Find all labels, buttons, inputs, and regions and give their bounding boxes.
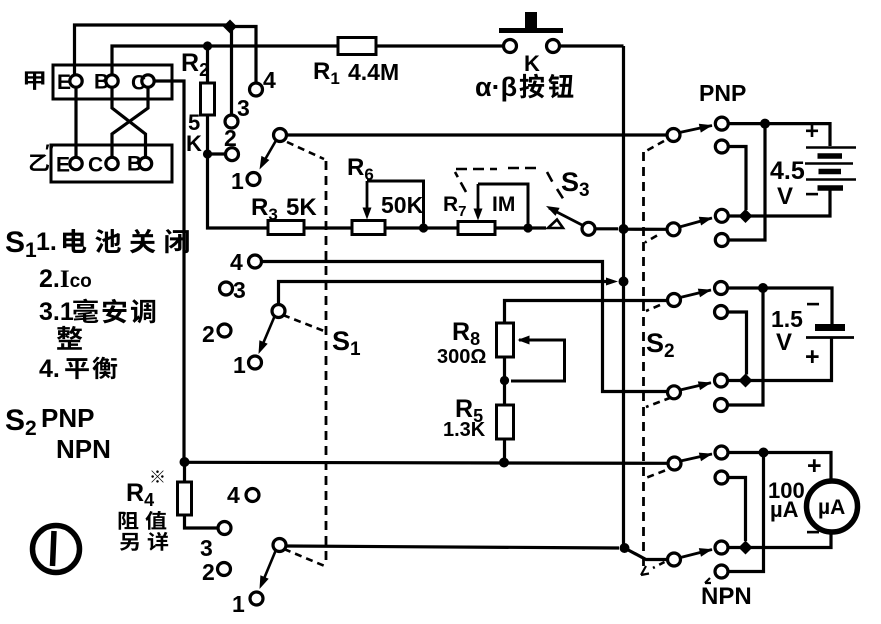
S2 ganged shaft dashed line <box>642 152 645 569</box>
svg-text:1: 1 <box>232 591 245 617</box>
S2 ganging dashes bottom upper <box>647 471 665 478</box>
wire upper inner contact down to minus wire <box>728 147 746 211</box>
svg-text:5K: 5K <box>286 194 317 221</box>
svg-text:V: V <box>777 183 793 210</box>
svg-text:α·β: α·β <box>475 72 517 102</box>
S1 ganging dashes deck C <box>284 549 327 567</box>
S2 PNP lower NO contact <box>715 209 728 222</box>
S1 deck B contact 3 <box>220 282 233 295</box>
S2 PNP lower blade arrow <box>680 218 713 227</box>
node junction R5 bottom on rail <box>499 458 509 468</box>
svg-text:2: 2 <box>202 559 215 585</box>
wire NO contact to meter + corner <box>728 453 831 482</box>
svg-text:4.4M: 4.4M <box>348 59 399 85</box>
wire middle NO to battery − corner <box>728 288 833 324</box>
label 甲 <box>25 71 45 90</box>
S1 deck C contact 3 <box>218 522 231 535</box>
label 乙″ <box>30 154 49 171</box>
svg-text:4: 4 <box>263 67 276 93</box>
svg-text:B: B <box>127 153 142 176</box>
wire R1 to K button <box>376 44 504 47</box>
S2 PNP upper NO contact <box>715 117 728 130</box>
wire upper inner down to − wire <box>728 478 746 542</box>
wire R6 to R7 <box>385 226 458 229</box>
legend line 整 <box>57 326 82 350</box>
svg-text:50K: 50K <box>381 192 424 218</box>
wire R7 to S3 contact <box>495 226 546 229</box>
svg-text:3: 3 <box>237 95 250 121</box>
meter µA 100µA <box>807 481 858 532</box>
resistor R5 1.3K (vertical) <box>497 405 514 439</box>
svg-text:PNP: PNP <box>41 403 94 433</box>
S2 middle upper pole <box>668 294 681 307</box>
wire PNP NO contact to battery + corner <box>728 124 830 146</box>
wire node down to contact 3 of S1 deck A <box>230 27 233 116</box>
svg-text:3: 3 <box>233 277 246 303</box>
svg-text:−: − <box>806 291 820 318</box>
wire upper inner down to + wire <box>728 312 747 375</box>
potentiometer R7 1M <box>458 222 495 235</box>
S2 bottom lower blade arrow <box>681 550 713 558</box>
S2 middle lower blade arrow <box>680 383 711 390</box>
wire cross-connect to lower inner contact <box>728 453 764 572</box>
socket box 甲 (top transistor socket) <box>53 65 172 99</box>
S3 pivot contact <box>582 222 595 235</box>
node R2 top junction <box>203 41 212 50</box>
S2 bottom lower inner contact <box>715 565 728 578</box>
svg-text:+: + <box>807 452 822 480</box>
wire junction to S2 NPN lower pole <box>625 548 668 560</box>
S1 deck A blade arrow to contact 1 <box>263 141 276 164</box>
socket 乙 terminal C <box>106 157 118 169</box>
S2 ganging dashes top deck <box>646 141 664 151</box>
label 阻值 <box>119 512 139 530</box>
socket 甲 terminal E <box>70 75 82 87</box>
svg-text:1.: 1. <box>36 228 57 256</box>
label 另详 <box>120 533 139 551</box>
S1 deck C pole wire to bus bottom junction <box>286 546 619 548</box>
S2 bottom lower pole <box>668 553 681 566</box>
S2 middle lower NO contact <box>715 374 728 387</box>
R8 wiper arrow loop <box>518 336 530 345</box>
S2 middle upper NO contact <box>715 282 728 295</box>
rail wire bottom (R4 top to µA deck pole) <box>185 462 669 463</box>
node junction plus wire (diamond) <box>739 374 753 388</box>
svg-text:µA: µA <box>770 497 799 522</box>
S1 deck A contact 1 <box>247 173 260 186</box>
wire battery + to lower row <box>728 338 832 381</box>
pushbutton K actuator <box>499 28 563 33</box>
node junction bus S3 wire <box>619 224 629 234</box>
pushbutton K left contact <box>504 40 517 53</box>
svg-text:4.: 4. <box>39 355 60 383</box>
node R2 bottom junction <box>203 149 212 158</box>
potentiometer R6 50K <box>352 221 385 235</box>
wire C甲 cross to C乙 <box>112 88 148 158</box>
svg-text:1.3K: 1.3K <box>443 419 486 441</box>
S2 PNP upper inner contact <box>715 140 728 153</box>
svg-text:K: K <box>186 131 202 156</box>
S2 middle upper inner contact <box>715 306 728 319</box>
S3 blade with arrow <box>549 208 584 226</box>
S1 deck A contact 2 <box>226 148 239 161</box>
svg-text:PNP: PNP <box>699 80 746 106</box>
node junction R7 wiper to track <box>523 223 532 232</box>
S3 fixed contact (triangle) <box>548 220 563 229</box>
S2 ganging dashes middle lower <box>646 398 671 408</box>
S1 deck C contact 2 <box>218 563 231 576</box>
vertical bus wire from K down to bottom deck <box>622 46 625 546</box>
potentiometer R8 300Ω (vertical) <box>497 323 514 357</box>
S2 PNP lower pole <box>667 223 680 236</box>
wire meter − to lower row <box>728 531 831 548</box>
svg-text:NPN: NPN <box>56 434 111 464</box>
S2 ganging dashes PNP lower <box>645 236 657 243</box>
resistor R4 (vertical) <box>183 462 186 482</box>
resistor R2 5K (vertical) <box>206 46 209 83</box>
S1 deck A pole wire to S2 PNP pole <box>287 133 668 136</box>
svg-text:1: 1 <box>233 352 246 378</box>
socket 乙 terminal B <box>139 157 151 169</box>
wire B甲 up to R1 rail <box>112 46 338 75</box>
svg-text:−: − <box>806 519 820 546</box>
S3 dashed linkage outline <box>455 168 564 200</box>
S1 deck B blade arrow to contact 1 <box>262 317 275 347</box>
wire S3 to bus <box>595 227 618 230</box>
svg-text:4: 4 <box>227 482 240 508</box>
wire cross-connect + to lower inner contact <box>728 124 765 240</box>
pushbutton K right contact <box>547 40 560 53</box>
S2 middle lower pole <box>668 386 681 399</box>
node junction R4 top on rail <box>180 457 190 467</box>
S2 bottom upper inner contact <box>715 471 728 484</box>
S2 bottom upper NO contact <box>715 446 728 459</box>
S2 middle upper blade arrow <box>680 290 711 298</box>
S1 deck C blade arrow to contact 1 <box>263 551 276 581</box>
battery 4.5V cells <box>806 146 856 149</box>
svg-text:C: C <box>131 72 146 95</box>
resistor R1 4.4M (horizontal) <box>338 38 376 55</box>
S1 deck B pole <box>272 305 285 318</box>
S1 ganging dashes deck A <box>287 142 324 159</box>
svg-text:+: + <box>805 343 820 371</box>
socket box 乙 (bottom transistor socket) <box>51 145 172 182</box>
node junction battery + branch <box>760 119 770 129</box>
wire node to contact 4 of S1 deck A <box>230 27 256 84</box>
svg-text:4.5: 4.5 <box>770 157 805 185</box>
figure number ① mark <box>33 526 80 573</box>
wire top rail from E甲 up and right to node <box>75 25 231 75</box>
svg-text:2: 2 <box>224 125 237 151</box>
svg-text:E: E <box>56 154 70 177</box>
S2 bottom lower NO contact <box>715 541 728 554</box>
socket 甲 terminal B <box>106 75 118 87</box>
arrow into bus junction <box>606 278 618 286</box>
S1 ganging dashes deck B <box>283 315 324 331</box>
svg-text:µA: µA <box>818 496 845 519</box>
svg-text:300Ω: 300Ω <box>437 346 486 368</box>
svg-text:1: 1 <box>231 168 244 194</box>
wire cross-connect to lower inner contact <box>728 288 764 405</box>
svg-text:4: 4 <box>230 249 243 275</box>
svg-text:E: E <box>57 71 71 94</box>
wire R2 bottom down to R3 <box>208 154 269 228</box>
S2 bottom upper blade arrow <box>681 454 713 461</box>
S1 deck A contact 3 <box>225 115 238 128</box>
socket 甲 terminal C <box>142 75 154 87</box>
wire E甲 to E乙 <box>74 88 77 158</box>
S1 deck B wire contact4 right and down to S2 middle lower pole <box>262 262 668 392</box>
svg-text:IM: IM <box>492 193 515 216</box>
S1 deck C contact 1 <box>250 592 263 605</box>
svg-text:+: + <box>805 118 819 145</box>
socket 乙 terminal E <box>70 157 82 169</box>
S1 deck B pole wire up and right to bus junction <box>279 282 611 305</box>
wire B甲 cross to B乙 <box>112 88 146 158</box>
S2 middle lower inner contact <box>715 399 728 412</box>
svg-text:2: 2 <box>202 321 215 347</box>
S1 deck B contact 2 <box>218 324 231 337</box>
S2 ganging dashes middle upper <box>646 305 660 311</box>
node junction meter + branch <box>759 448 769 458</box>
battery 1.5V cell <box>815 324 845 331</box>
S1 deck A pole <box>274 129 287 142</box>
wire R8 top up and right to S2 middle upper pole <box>505 301 668 324</box>
svg-text:−: − <box>805 181 819 208</box>
svg-text:NPN: NPN <box>701 583 752 610</box>
node junction R6 wiper to track <box>419 223 428 232</box>
wire K to long vertical bus <box>560 44 624 47</box>
resistor R3 5K (horizontal) <box>268 221 304 235</box>
wire R8 to R5 <box>503 357 506 405</box>
S1 deck B contact 4 <box>249 255 262 268</box>
label ※ footnote mark <box>151 470 163 482</box>
node junction R8 bottom wiper <box>500 376 509 385</box>
S1 deck A contact 4 <box>250 83 263 96</box>
S2 bottom upper pole <box>668 457 681 470</box>
S2 ganging dashes bottom lower end arrow <box>653 562 665 568</box>
svg-text:3: 3 <box>200 535 213 561</box>
wire R2 bottom to contact 2 of S1 deck A <box>208 152 226 155</box>
svg-text:V: V <box>776 329 792 356</box>
S1 ganged shaft dashed line <box>325 161 328 565</box>
svg-text:B: B <box>94 71 109 94</box>
node junction 1.5V top branch <box>758 283 768 293</box>
node junction minus wire (diamond) <box>739 209 753 223</box>
node junction top (diamond) <box>223 20 237 34</box>
svg-text:C: C <box>88 154 103 177</box>
svg-text:″: ″ <box>45 142 54 163</box>
S1 deck C contact 4 <box>246 489 259 502</box>
node junction bus deck B wire <box>619 277 629 287</box>
node junction bus bottom <box>620 543 630 553</box>
S2 PNP upper pole <box>667 129 680 142</box>
wire C甲 right and down left side to bottom rail <box>155 81 185 458</box>
S1 deck C pole <box>273 539 286 552</box>
S2 PNP upper blade arrow <box>680 126 713 133</box>
S2 PNP lower inner contact <box>715 234 728 247</box>
node junction meter − wire (diamond) <box>739 541 753 555</box>
svg-text:K: K <box>524 51 540 76</box>
S1 deck B contact 1 <box>249 356 262 369</box>
wire battery - to lower row <box>728 188 830 216</box>
wire R3 to R6 <box>304 226 352 229</box>
svg-text:3.1: 3.1 <box>39 298 74 326</box>
wire bus to S2 PNP lower pole <box>624 228 668 231</box>
